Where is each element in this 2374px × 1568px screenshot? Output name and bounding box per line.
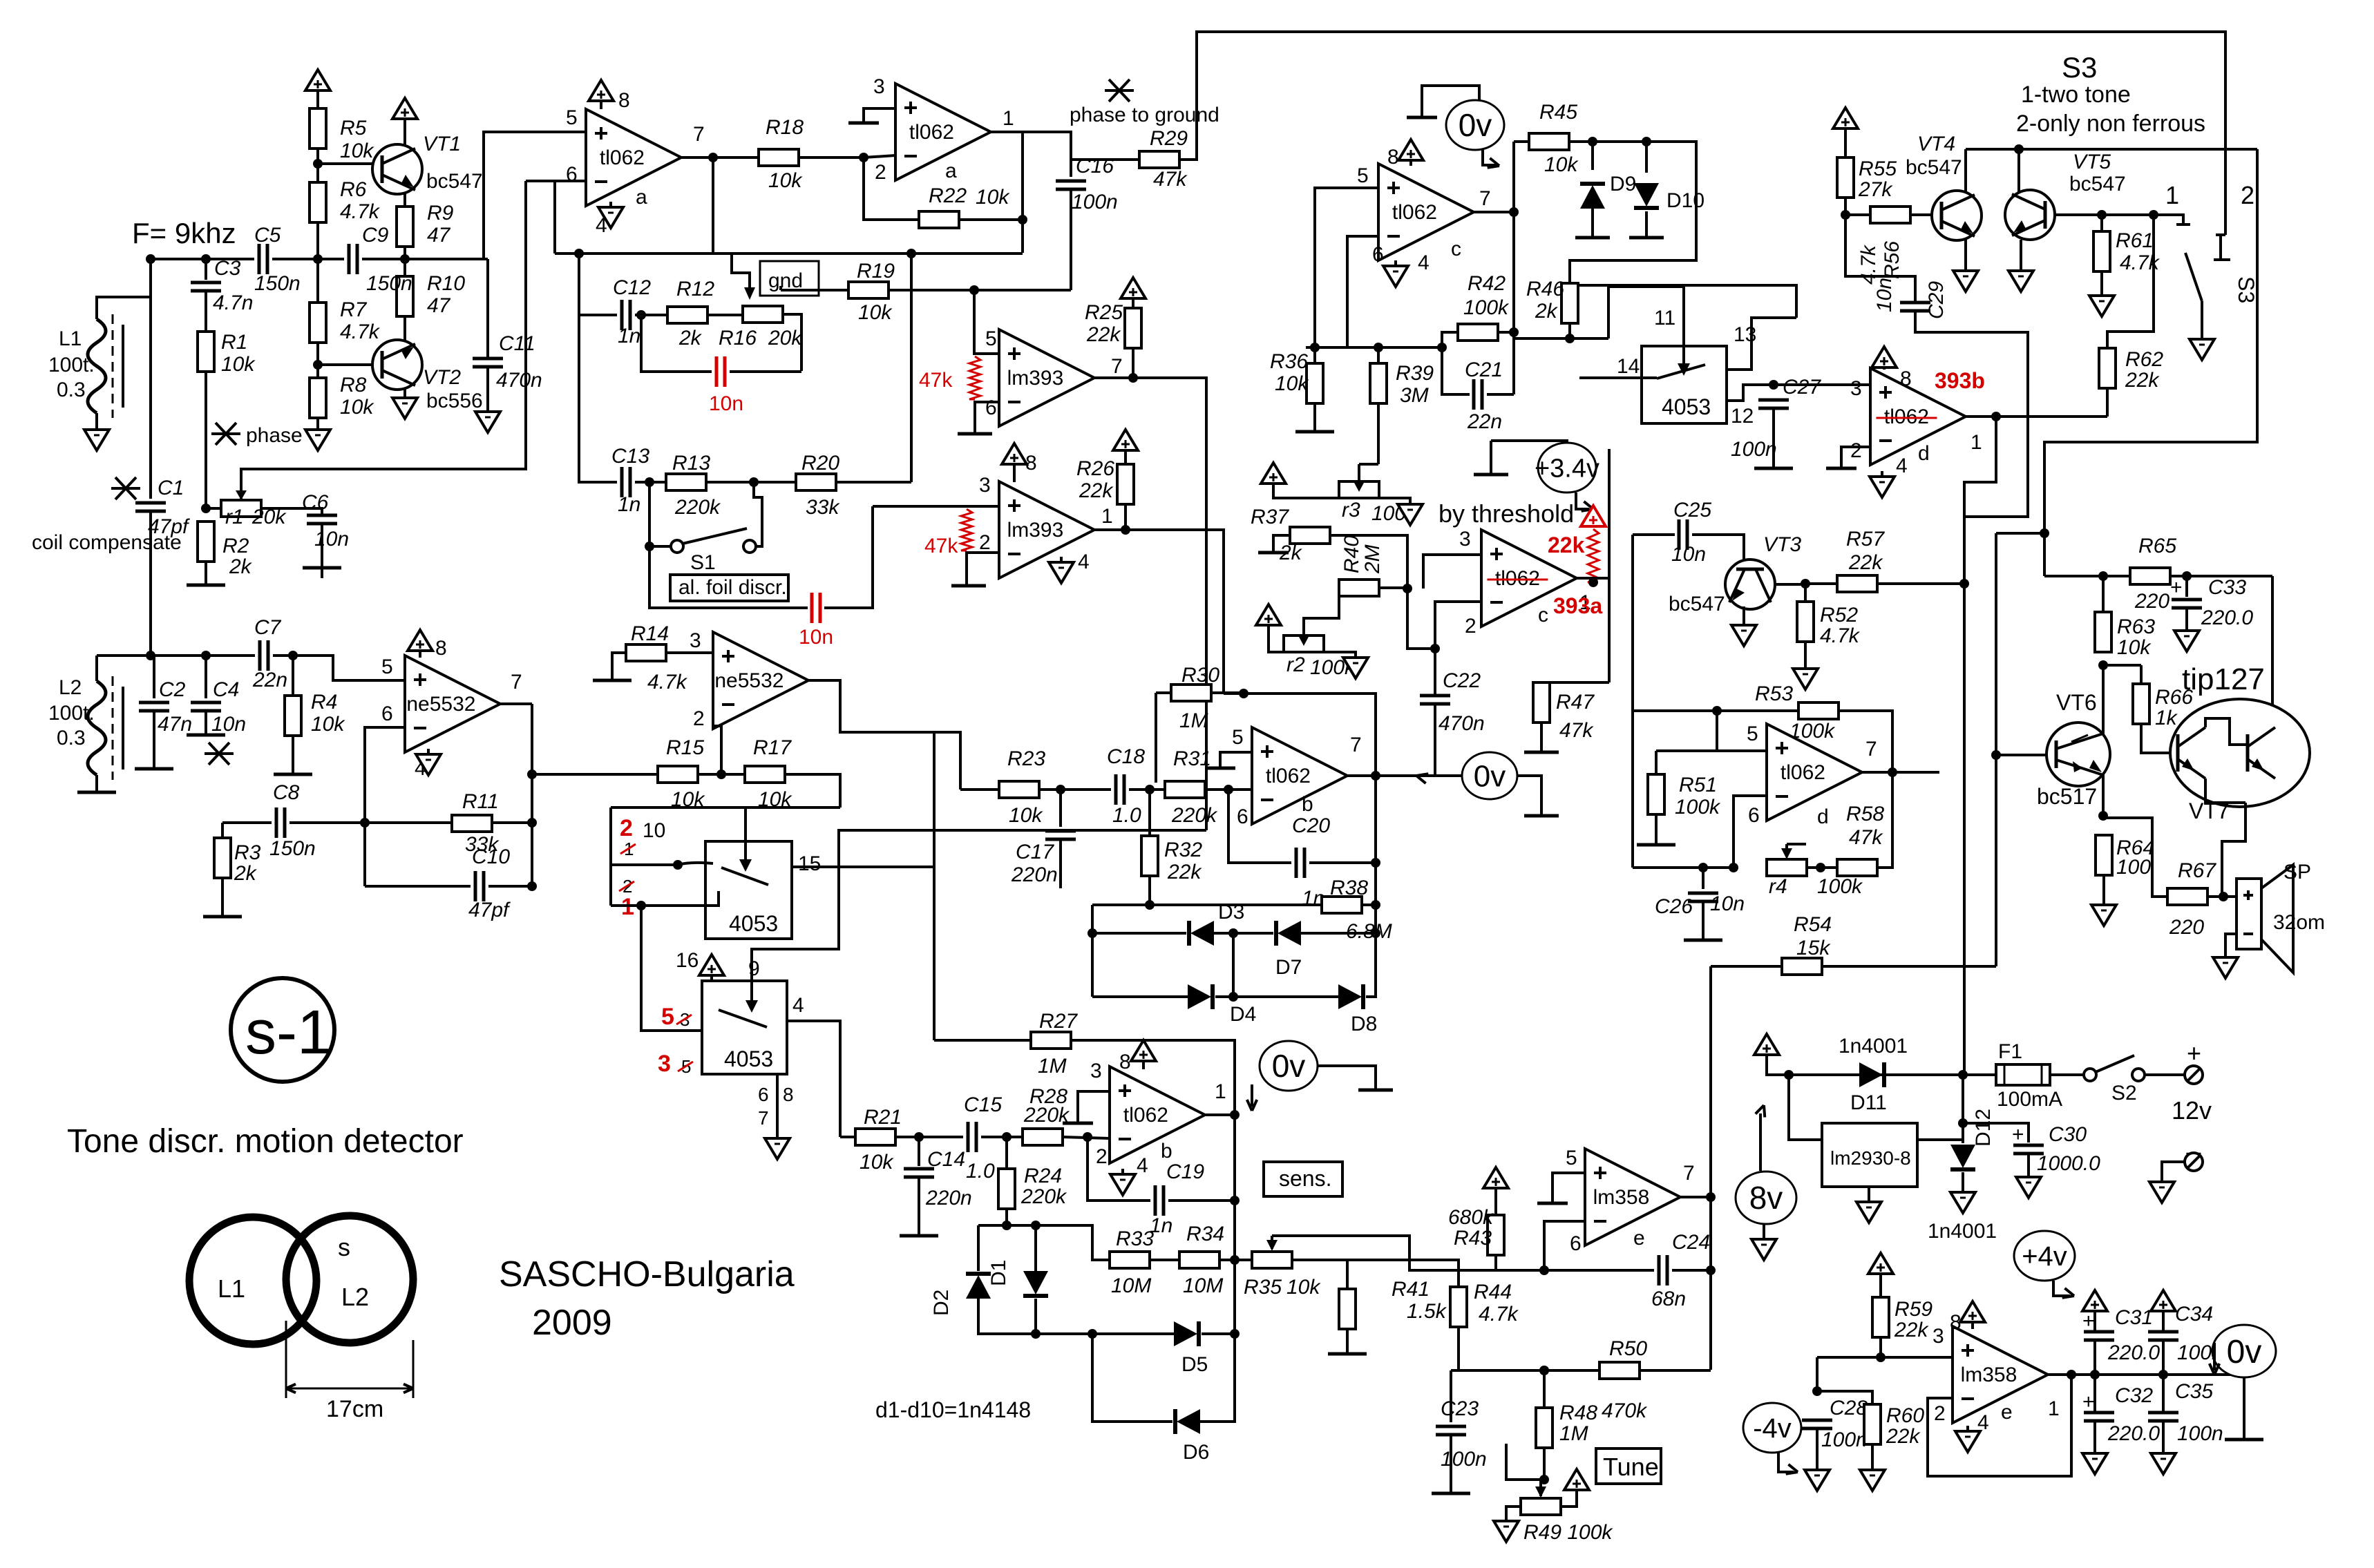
potentiometer R16 xyxy=(743,306,783,323)
wire lm358e output xyxy=(1679,1196,1711,1198)
capacitor C12 xyxy=(620,300,624,330)
wire right-edge riser xyxy=(2044,149,2257,576)
wire R43 top xyxy=(1494,1188,1497,1215)
wire R15-R17 xyxy=(698,773,745,776)
wire C19 right xyxy=(1168,1199,1235,1202)
ground 4053b xyxy=(765,1138,790,1159)
capacitor C13 xyxy=(620,467,624,497)
ground bar under C14 xyxy=(900,1234,938,1238)
ground tl062a pin4 xyxy=(598,207,623,228)
wire R21-C15 xyxy=(895,1136,963,1138)
resistor 47k (red) at lm393-1 xyxy=(969,356,980,399)
resistor R67 xyxy=(2167,888,2207,905)
node L2 bus C1 xyxy=(146,651,155,660)
svg-text:+: + xyxy=(2082,1310,2095,1332)
svg-text:D5: D5 xyxy=(1181,1353,1208,1376)
svg-text:R2: R2 xyxy=(222,535,249,557)
svg-text:393a: 393a xyxy=(1553,593,1602,618)
svg-text:R13: R13 xyxy=(672,452,710,475)
ground under VT3 xyxy=(1731,625,1756,646)
node R24/D1 xyxy=(1002,1221,1012,1230)
wire R35 wiper to lm358e minus xyxy=(1272,1236,1544,1270)
svg-text:47k: 47k xyxy=(1559,719,1594,742)
wire C24 right xyxy=(1672,1269,1711,1272)
svg-text:2-only non ferrous: 2-only non ferrous xyxy=(2016,111,2205,137)
svg-text:tl062: tl062 xyxy=(600,146,645,169)
wire to C13 xyxy=(578,481,617,484)
fuse F1 xyxy=(1996,1064,2050,1085)
wire R52 down xyxy=(1804,642,1807,669)
wire ne5532b minus input xyxy=(713,726,721,774)
power + C31 xyxy=(2082,1290,2107,1311)
wire C34 top xyxy=(2162,1311,2165,1332)
resistor R26 xyxy=(1117,464,1134,504)
svg-text:d: d xyxy=(1918,442,1930,465)
node b minus xyxy=(1224,785,1233,794)
svg-text:22n: 22n xyxy=(252,669,287,691)
svg-text:100: 100 xyxy=(2116,856,2151,879)
resistor 47k (red) at lm393-2 xyxy=(961,509,972,551)
transistor VT1 xyxy=(372,144,422,194)
svg-text:5: 5 xyxy=(1747,723,1758,745)
label +4v circle xyxy=(2014,1231,2075,1281)
wire b2 pin4 stub xyxy=(1121,1169,1124,1174)
wire R65 right xyxy=(2170,575,2272,577)
node speaker + xyxy=(2219,892,2228,901)
wire x1352 down xyxy=(933,867,936,1040)
wire C18-R31 xyxy=(1129,788,1165,791)
ground bar 0v mid xyxy=(1524,814,1559,818)
svg-text:4.7n: 4.7n xyxy=(213,291,253,314)
node R7/R8/VT2 base xyxy=(313,360,323,370)
wire R63 top xyxy=(2102,576,2105,612)
svg-text:22k: 22k xyxy=(1548,533,1585,557)
svg-text:2: 2 xyxy=(1096,1145,1108,1168)
op-amp U-d tl062 (second) xyxy=(1767,724,1862,821)
wire VT7 emitter to speaker xyxy=(2222,803,2245,894)
box Tune label xyxy=(1596,1449,1661,1484)
wire R30 left stub xyxy=(1156,691,1171,694)
wire R7-R8 xyxy=(316,343,319,378)
svg-text:b: b xyxy=(1161,1140,1172,1163)
svg-text:R63: R63 xyxy=(2117,615,2155,638)
diode D6 xyxy=(1175,1409,1200,1434)
ground at r2 xyxy=(1343,658,1368,678)
ground bar under R51 xyxy=(1637,843,1675,847)
svg-text:R3: R3 xyxy=(234,841,261,864)
node R40 right xyxy=(1403,584,1412,593)
wire R65 to VT7 collector xyxy=(2271,576,2274,705)
node diode row left xyxy=(1088,928,1097,938)
wire to R24 xyxy=(1005,1137,1008,1169)
ground at r3 xyxy=(1398,504,1423,525)
svg-text:C2: C2 xyxy=(159,678,186,701)
selector arrow in 4053 third xyxy=(1682,323,1685,373)
svg-text:1M: 1M xyxy=(1038,1055,1067,1078)
wire C32 down xyxy=(2093,1422,2096,1453)
label 0v circle (middle) xyxy=(1462,752,1517,799)
ground ne5532 pin4 xyxy=(416,754,441,775)
svg-text:8: 8 xyxy=(1387,146,1399,169)
power + for R55 xyxy=(1833,108,1858,128)
wire C20 right xyxy=(1309,861,1376,864)
wire to R57 xyxy=(1805,582,1837,585)
ground lm358e2 pin4 xyxy=(1955,1431,1980,1452)
ground bar b2 +input xyxy=(1063,1122,1093,1125)
svg-text:10k: 10k xyxy=(221,353,256,376)
svg-text:8: 8 xyxy=(1900,367,1912,390)
wire R14 left xyxy=(612,653,626,680)
wire VT3 collector xyxy=(1775,583,1805,586)
transistor VT6 (bc517) xyxy=(2047,723,2110,786)
wire R5-R6 xyxy=(316,149,319,182)
wire C31 top xyxy=(2093,1311,2096,1332)
svg-text:R18: R18 xyxy=(766,116,804,139)
wire to R3 xyxy=(221,823,224,838)
node bus C3 xyxy=(201,254,211,264)
ground under C30 xyxy=(2016,1177,2041,1198)
wire R51 to +input xyxy=(1656,749,1717,752)
diode D11 xyxy=(1859,1062,1884,1087)
resistor R60 xyxy=(1864,1404,1881,1444)
ground bar lm393-2 xyxy=(951,584,986,588)
node D5 left xyxy=(1088,1329,1097,1339)
svg-text:ne5532: ne5532 xyxy=(714,669,784,692)
node R15/ne5532b xyxy=(716,769,726,779)
wire into lm2930 xyxy=(1789,1075,1822,1140)
svg-text:d: d xyxy=(1817,805,1829,828)
ground under VT5 xyxy=(2009,271,2033,291)
op-amp 393a (tl062 strikethrough) xyxy=(1481,530,1577,627)
wire R31 to b minus xyxy=(1205,788,1252,791)
wire R30 left down xyxy=(1155,693,1157,783)
svg-text:2: 2 xyxy=(875,161,886,184)
resistor R24 xyxy=(998,1169,1015,1209)
svg-text:R8: R8 xyxy=(340,374,367,396)
power + at r2 xyxy=(1256,604,1281,625)
capacitor C19 xyxy=(1154,1185,1157,1216)
ground bar under R2 xyxy=(187,584,225,587)
svg-text:R12: R12 xyxy=(676,278,714,300)
resistor R42 xyxy=(1458,324,1498,341)
svg-text:470k: 470k xyxy=(1602,1399,1648,1422)
svg-text:4: 4 xyxy=(1078,551,1090,573)
node tl062c out xyxy=(1509,207,1519,217)
svg-text:1M: 1M xyxy=(1559,1422,1588,1445)
wire y503 row xyxy=(1306,346,1442,349)
wire left diode column xyxy=(1091,905,1094,933)
svg-text:C30: C30 xyxy=(2049,1123,2087,1146)
svg-text:2k: 2k xyxy=(1535,300,1559,323)
wire +3.4v hook down xyxy=(1490,441,1492,473)
svg-text:2: 2 xyxy=(1934,1402,1946,1425)
svg-text:47k: 47k xyxy=(1153,168,1188,191)
resistor R10 xyxy=(397,276,413,316)
wire tl062c -input down xyxy=(1347,236,1378,347)
svg-text:bc547: bc547 xyxy=(426,170,483,193)
svg-text:2: 2 xyxy=(979,531,991,554)
wire R48 down xyxy=(1543,1448,1546,1480)
svg-text:13: 13 xyxy=(1734,323,1756,346)
svg-text:22k: 22k xyxy=(2125,369,2160,392)
svg-text:1M: 1M xyxy=(1179,709,1208,732)
ground bar +3.4v xyxy=(1474,473,1508,477)
resistor R57 xyxy=(1837,575,1877,592)
svg-text:C21: C21 xyxy=(1465,358,1503,381)
ground bar lm393-1 xyxy=(958,432,992,436)
svg-text:150n: 150n xyxy=(269,837,316,860)
svg-text:4: 4 xyxy=(1896,455,1908,477)
power + at r3 xyxy=(1261,463,1286,484)
svg-text:1: 1 xyxy=(1101,505,1113,528)
svg-text:4.7k: 4.7k xyxy=(1820,624,1861,647)
svg-text:2k: 2k xyxy=(234,862,258,885)
svg-text:SASCHO-Bulgaria: SASCHO-Bulgaria xyxy=(499,1254,795,1294)
svg-text:R32: R32 xyxy=(1164,839,1202,861)
svg-text:C10: C10 xyxy=(472,845,510,868)
op-amp lm393 second xyxy=(999,481,1094,578)
svg-text:10k: 10k xyxy=(340,396,374,419)
wire C13 to R13 xyxy=(635,481,666,484)
svg-text:-4v: -4v xyxy=(1753,1413,1792,1444)
svg-text:6: 6 xyxy=(1237,805,1248,828)
wire 4053a lower input xyxy=(611,891,719,906)
svg-text:sens.: sens. xyxy=(1279,1166,1331,1191)
wire 0v arrow to output node xyxy=(1376,774,1416,777)
wire 393b output xyxy=(1964,415,2107,418)
svg-text:S2: S2 xyxy=(2111,1082,2137,1105)
wire R65 row xyxy=(2044,575,2130,577)
svg-text:C12: C12 xyxy=(613,276,651,299)
terminal - 12v xyxy=(2185,1153,2203,1171)
wire R41 down xyxy=(1346,1329,1349,1352)
svg-text:R45: R45 xyxy=(1539,101,1577,124)
wire top bus xyxy=(1179,32,2225,220)
resistor R50 xyxy=(1599,1362,1640,1379)
node R32 top xyxy=(1145,785,1155,794)
power + supply xyxy=(1754,1034,1779,1055)
wire R6-R7 xyxy=(316,222,319,303)
wire +3.4v hook top xyxy=(1491,441,1567,443)
node bus L1 xyxy=(146,254,155,264)
ground bar under D9 xyxy=(1575,236,1610,240)
wire to VT2 base xyxy=(318,363,372,366)
capacitor C32 xyxy=(2084,1411,2114,1415)
op-amp 393b (tl062 strikethrough) xyxy=(1870,368,1966,465)
wire R66 to VT7 base xyxy=(2141,724,2174,753)
svg-text:lm393: lm393 xyxy=(1007,367,1064,390)
svg-text:3: 3 xyxy=(873,75,885,98)
svg-text:by threshold: by threshold xyxy=(1438,499,1574,528)
svg-text:100k: 100k xyxy=(1463,296,1510,319)
svg-text:r2: r2 xyxy=(1286,653,1305,676)
switch S3 xyxy=(2176,215,2190,224)
IC 4053 first xyxy=(705,841,792,939)
power + for R26 xyxy=(1113,430,1138,450)
wire to R32 xyxy=(1148,790,1151,836)
wire C4 down xyxy=(205,711,207,734)
wire diodes top left xyxy=(1092,903,1150,906)
svg-text:6: 6 xyxy=(985,396,997,419)
wire C33 down xyxy=(2185,609,2188,631)
resistor R5 xyxy=(310,108,326,149)
resistor R3 xyxy=(214,838,231,878)
resistor R36 xyxy=(1307,363,1323,403)
wire to D6 xyxy=(1092,1334,1172,1422)
wire R23-C18 xyxy=(1039,788,1111,791)
ground under R8 xyxy=(305,430,330,450)
svg-text:22n: 22n xyxy=(1467,410,1502,433)
node b2 minus xyxy=(1083,1132,1092,1142)
wire R36 down xyxy=(1313,403,1316,430)
ground under S3 xyxy=(2190,339,2214,360)
wire to C10 xyxy=(365,885,471,888)
wire to R52 xyxy=(1804,584,1807,602)
svg-text:+: + xyxy=(2012,1123,2024,1146)
resistor R29 xyxy=(1139,151,1179,168)
wire lm358e minus input xyxy=(1544,1221,1585,1270)
node coil compensate (X mark) xyxy=(111,477,140,499)
wiper of r4 xyxy=(1785,844,1788,857)
power +V for R5 xyxy=(305,70,330,90)
coil diagram L1 ring xyxy=(189,1217,316,1344)
svg-text:R40: R40 xyxy=(1340,535,1363,573)
wire C11 to ground xyxy=(486,367,489,412)
transistor VT5 xyxy=(2005,190,2055,240)
svg-text:20k: 20k xyxy=(768,327,803,350)
svg-text:C28: C28 xyxy=(1830,1397,1868,1419)
svg-text:2k: 2k xyxy=(229,555,253,578)
wire r3 right xyxy=(1379,498,1410,504)
wiper arrow from gnd to R16 xyxy=(732,254,750,293)
wire bus to C3 xyxy=(205,259,207,280)
svg-text:10M: 10M xyxy=(1183,1274,1223,1297)
wire R46 to 4053c xyxy=(1570,337,1608,340)
wire b2 output xyxy=(1205,1113,1235,1116)
svg-text:4053: 4053 xyxy=(729,911,778,936)
svg-text:9: 9 xyxy=(748,957,760,980)
wire R19 to C16 node xyxy=(889,289,1071,291)
resistor 22k (red) xyxy=(1588,529,1599,582)
node d2 out xyxy=(1888,767,1897,777)
wire R46 bottom xyxy=(1514,323,1570,338)
svg-text:L2: L2 xyxy=(59,676,82,699)
svg-text:1n: 1n xyxy=(618,493,640,516)
wire R2 to ground xyxy=(205,562,207,584)
arrow from 0v sens xyxy=(1251,1084,1253,1107)
resistor R22 xyxy=(919,211,959,228)
svg-text:1.0: 1.0 xyxy=(966,1160,995,1183)
wire R60 down xyxy=(1871,1444,1874,1470)
wire tl062a output to R18 xyxy=(681,156,759,159)
node b2 out xyxy=(1230,1110,1240,1120)
wire 0v hook xyxy=(1422,86,1479,116)
node R48 bottom xyxy=(1539,1475,1549,1484)
resistor R61 xyxy=(2093,231,2110,271)
power + 4053b pin16 xyxy=(699,955,724,975)
wire R11 right xyxy=(492,821,532,824)
svg-text:470n: 470n xyxy=(496,369,542,392)
svg-text:+3.4v: +3.4v xyxy=(1535,454,1599,483)
label 0v circle (sens) xyxy=(1260,1041,1318,1091)
svg-text:R46: R46 xyxy=(1526,278,1564,300)
power + for ne5532 xyxy=(408,630,433,651)
wire C10 right xyxy=(488,885,532,888)
svg-text:D12: D12 xyxy=(1972,1109,1995,1147)
svg-text:470n: 470n xyxy=(1438,712,1485,735)
wire D6 right xyxy=(1200,1334,1235,1422)
svg-text:R17: R17 xyxy=(753,736,792,759)
svg-text:C3: C3 xyxy=(214,257,241,280)
wire R39 top stub xyxy=(1377,347,1380,363)
svg-text:5: 5 xyxy=(1566,1147,1577,1169)
wire R22 to output xyxy=(959,218,1023,221)
wire R19 left xyxy=(781,289,848,291)
wire C28 down xyxy=(1816,1429,1819,1470)
resistor R8 xyxy=(310,378,326,418)
wire VT6 collector up xyxy=(2102,665,2105,734)
wire R42 right xyxy=(1498,331,1514,334)
svg-text:C8: C8 xyxy=(273,781,300,804)
ground under C11 xyxy=(475,412,500,432)
wire ne5532b output xyxy=(808,680,934,732)
wire 8v down xyxy=(1763,1224,1765,1239)
node L2 bus C4 xyxy=(201,651,211,660)
op-amp lm358 first xyxy=(1585,1149,1680,1245)
arrow from 0v middle pointing left xyxy=(1416,774,1462,777)
resistor R12 xyxy=(667,307,708,323)
svg-text:150n: 150n xyxy=(254,272,301,295)
wire lm358e2 pin4 stub xyxy=(1966,1426,1969,1431)
wire R25 top xyxy=(1132,298,1134,308)
wire C15-R28 xyxy=(981,1136,1023,1138)
wire L2 bus left xyxy=(97,654,255,657)
node r4 left xyxy=(1729,863,1738,872)
potentiometer r3 xyxy=(1339,481,1379,498)
wire C35 down xyxy=(2162,1422,2165,1453)
wire b output xyxy=(1347,774,1376,777)
wire ne5532 minus input down xyxy=(365,727,405,886)
wire C31 down xyxy=(2093,1341,2096,1375)
wire L2 to ground xyxy=(95,775,98,791)
wire to D3 xyxy=(1092,932,1186,935)
switch S1 xyxy=(671,540,683,553)
capacitor C17 xyxy=(1045,830,1076,833)
wire x2363 vertical xyxy=(1631,535,1634,691)
wire 0v supply down xyxy=(2243,1377,2245,1438)
node D11 left xyxy=(1784,1070,1794,1080)
wire C12 to R12 xyxy=(635,314,667,316)
wire R55 top xyxy=(1844,128,1847,157)
node R42 left xyxy=(1437,343,1447,352)
node R65 left xyxy=(2098,571,2108,581)
svg-text:C16: C16 xyxy=(1076,155,1114,178)
resistor R64 xyxy=(2096,835,2112,875)
op-amp U-c tl062 xyxy=(1378,164,1474,260)
svg-text:4: 4 xyxy=(1137,1154,1148,1177)
svg-text:D3: D3 xyxy=(1218,901,1244,924)
svg-text:10k: 10k xyxy=(860,1151,894,1174)
ground bar under R47 xyxy=(1524,751,1559,754)
wire R61 top xyxy=(2100,215,2103,231)
ground under R60 xyxy=(1860,1470,1885,1491)
diode D4 xyxy=(1188,984,1213,1009)
svg-text:VT3: VT3 xyxy=(1763,533,1801,556)
wire R46 to 4053c pin11 xyxy=(1608,287,1684,338)
switch S2 xyxy=(2084,1069,2096,1081)
node R46/4053 wire xyxy=(1565,334,1575,343)
ground under R61 xyxy=(2089,296,2114,316)
